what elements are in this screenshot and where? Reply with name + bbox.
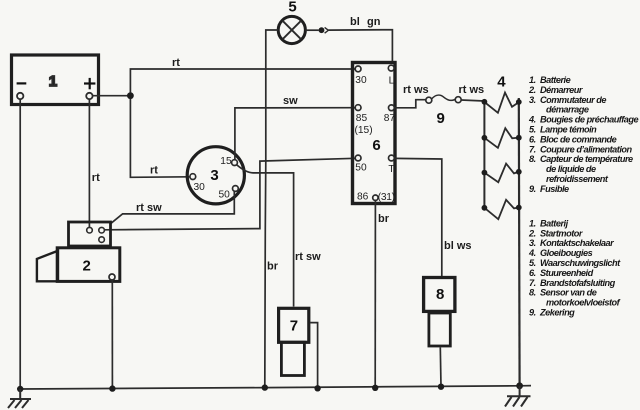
svg-text:L: L — [389, 75, 395, 86]
wire bl gn to block terminal L — [328, 30, 392, 62]
wire rt to block terminal 30 — [130, 69, 355, 93]
svg-text:8.: 8. — [529, 288, 536, 298]
wire sw from switch 15 to block 85 — [235, 108, 355, 160]
svg-text:50: 50 — [355, 163, 367, 174]
starter 2 — [37, 222, 120, 281]
heater element 3 — [484, 164, 518, 183]
svg-text:rt: rt — [92, 172, 100, 184]
switch 3 — [187, 147, 244, 204]
svg-text:7.: 7. — [529, 278, 536, 288]
ground symbol left — [8, 389, 31, 408]
sensor 8 — [424, 278, 455, 347]
legend Dutch — [528, 218, 621, 317]
ground rail — [20, 386, 531, 389]
svg-text:1: 1 — [49, 73, 57, 90]
svg-text:Coupure d’alimentation: Coupure d’alimentation — [540, 144, 632, 154]
svg-text:rt ws: rt ws — [403, 84, 429, 96]
glow plugs 4 — [482, 74, 522, 386]
svg-text:1.: 1. — [529, 75, 536, 85]
connector arrow — [325, 27, 329, 33]
node lamp connector — [319, 27, 325, 33]
heater element 4 — [484, 200, 518, 219]
svg-text:8.: 8. — [529, 154, 536, 164]
svg-text:2.: 2. — [528, 228, 536, 238]
legend French — [528, 75, 638, 194]
svg-text:6.: 6. — [529, 134, 536, 144]
svg-text:de liquide de: de liquide de — [546, 164, 596, 174]
svg-text:50: 50 — [219, 190, 231, 201]
svg-text:motorkoelvloeistof: motorkoelvloeistof — [546, 298, 621, 308]
svg-text:Capteur de température: Capteur de température — [540, 154, 633, 164]
svg-text:Gloeibougies: Gloeibougies — [540, 248, 593, 258]
svg-text:rt: rt — [150, 165, 158, 177]
svg-text:5.: 5. — [529, 125, 536, 135]
fuse 9 — [403, 84, 484, 127]
svg-text:5: 5 — [288, 0, 296, 16]
svg-text:bl ws: bl ws — [444, 240, 472, 252]
svg-text:86: 86 — [357, 192, 369, 203]
glow plug junction dots — [482, 99, 488, 105]
svg-text:(31): (31) — [378, 192, 395, 203]
svg-text:Bloc de commande: Bloc de commande — [540, 134, 617, 144]
svg-text:15: 15 — [220, 156, 232, 167]
wire starter to ground rail — [111, 280, 113, 389]
svg-text:Batterij: Batterij — [540, 218, 569, 228]
ground symbol right — [505, 386, 531, 407]
svg-text:br: br — [378, 213, 390, 225]
svg-text:Lampe témoin: Lampe témoin — [540, 125, 597, 135]
svg-text:gn: gn — [367, 16, 381, 28]
svg-text:Stuureenheid: Stuureenheid — [540, 268, 594, 278]
svg-text:7: 7 — [290, 318, 298, 335]
svg-text:Démarreur: Démarreur — [540, 85, 583, 95]
heater element 1 — [484, 93, 518, 113]
svg-text:Batterie: Batterie — [540, 75, 571, 85]
right rail — [518, 98, 521, 386]
svg-text:9: 9 — [437, 110, 445, 127]
svg-text:sw: sw — [283, 95, 298, 107]
svg-text:6: 6 — [372, 137, 380, 154]
wire block 87 to fuse — [394, 100, 425, 108]
svg-text:Commutateur de: Commutateur de — [540, 95, 606, 105]
svg-text:Sensor van de: Sensor van de — [540, 288, 597, 298]
svg-text:(15): (15) — [355, 125, 373, 136]
svg-text:2.: 2. — [528, 85, 536, 95]
battery 1 — [12, 55, 99, 105]
svg-text:9.: 9. — [529, 308, 536, 318]
wire rt to switch terminal 30 — [130, 99, 190, 178]
svg-text:rt sw: rt sw — [295, 251, 321, 263]
node battery junction — [127, 92, 134, 99]
heater element 2 — [484, 128, 518, 148]
wire fuse to glow plugs — [461, 100, 484, 101]
svg-text:T: T — [388, 164, 394, 175]
svg-text:démarrage: démarrage — [546, 105, 589, 115]
svg-text:8: 8 — [436, 286, 444, 303]
svg-text:4.: 4. — [528, 248, 536, 258]
svg-text:rt ws: rt ws — [459, 84, 485, 96]
svg-text:Startmotor: Startmotor — [540, 228, 583, 238]
svg-text:1.: 1. — [529, 218, 536, 228]
svg-text:6.: 6. — [529, 268, 536, 278]
node rail dots — [17, 386, 23, 392]
wire battery plus to junction — [93, 95, 131, 97]
control block 6 — [353, 63, 396, 204]
svg-text:Bougies de préchauffage: Bougies de préchauffage — [540, 115, 638, 125]
wire rt sw from switch 15 to valve 7 — [237, 165, 294, 307]
svg-text:rt sw: rt sw — [136, 202, 162, 214]
svg-text:30: 30 — [355, 75, 367, 86]
svg-text:3.: 3. — [529, 95, 536, 105]
svg-text:Waarschuwingslicht: Waarschuwingslicht — [540, 258, 621, 268]
svg-text:Zekering: Zekering — [539, 308, 575, 318]
svg-text:3.: 3. — [529, 238, 536, 248]
svg-text:5.: 5. — [529, 258, 536, 268]
svg-text:refroidissement: refroidissement — [546, 174, 609, 184]
svg-text:rt: rt — [172, 57, 180, 69]
svg-text:85: 85 — [356, 113, 368, 124]
svg-text:7.: 7. — [529, 144, 536, 154]
svg-text:4.: 4. — [528, 115, 536, 125]
wire valve 7 to ground rail — [310, 323, 317, 389]
svg-text:4: 4 — [497, 74, 506, 91]
svg-text:Kontaktschakelaar: Kontaktschakelaar — [540, 238, 614, 248]
wire block 86 to ground rail (br) — [374, 200, 376, 387]
lamp 5 — [278, 0, 305, 44]
svg-text:Fusible: Fusible — [540, 184, 569, 194]
fuel cutoff valve 7 — [279, 308, 309, 375]
wire lamp right to junction — [305, 29, 318, 31]
wire solenoid to block terminal 50 — [105, 158, 355, 230]
svg-text:87: 87 — [384, 113, 396, 124]
svg-text:br: br — [267, 261, 279, 273]
wire rt sw from switch 50 to solenoid — [110, 191, 235, 224]
svg-text:30: 30 — [194, 182, 206, 193]
wire lamp left to ground (br) — [265, 30, 278, 388]
left rail — [483, 102, 485, 208]
wire sensor 8 to ground rail — [439, 348, 442, 387]
svg-text:bl: bl — [350, 16, 360, 28]
wire block T to sensor 8 — [395, 158, 442, 276]
wire rt battery plus down to solenoid — [88, 99, 90, 227]
svg-text:Brandstofafsluiting: Brandstofafsluiting — [540, 278, 616, 288]
svg-text:2: 2 — [83, 258, 91, 275]
svg-text:3: 3 — [210, 167, 218, 184]
wire battery minus to ground rail — [19, 99, 21, 389]
svg-text:9.: 9. — [529, 184, 536, 194]
